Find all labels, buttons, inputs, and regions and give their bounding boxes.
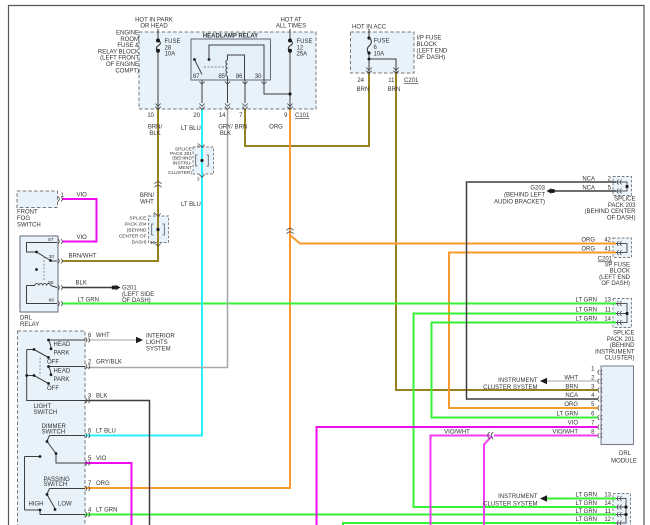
svg-text:14: 14 — [219, 113, 226, 119]
splice pack 204 internals — [156, 228, 159, 231]
svg-text:BLK: BLK — [96, 394, 107, 400]
svg-text:CLUSTER): CLUSTER) — [604, 356, 634, 362]
svg-text:SPLICE: SPLICE — [614, 197, 635, 203]
ACC box bottom chevrons — [366, 68, 398, 74]
svg-text:LT BLU: LT BLU — [96, 429, 116, 435]
svg-text:WHT: WHT — [564, 375, 578, 381]
DRL relay box — [20, 236, 58, 312]
svg-text:HEAD: HEAD — [54, 368, 71, 374]
svg-text:VIO: VIO — [77, 235, 88, 241]
svg-text:VIO/WHT: VIO/WHT — [444, 430, 470, 436]
svg-text:ORG: ORG — [581, 238, 595, 244]
svg-text:RELAY: RELAY — [20, 322, 39, 328]
splice pack 203 bracket — [616, 182, 627, 191]
svg-text:I/P FUSE: I/P FUSE — [417, 36, 442, 42]
svg-text:I/P FUSE: I/P FUSE — [605, 262, 630, 268]
svg-text:PACK 201: PACK 201 — [607, 337, 635, 343]
svg-text:BRN: BRN — [357, 87, 370, 93]
svg-text:VIO: VIO — [96, 456, 107, 462]
dimmer switch internals — [25, 436, 86, 511]
svg-text:GRY/: GRY/ — [218, 125, 233, 131]
I/P ACC fuse 6 symbol — [367, 29, 396, 73]
svg-text:HOT IN ACC: HOT IN ACC — [352, 25, 387, 31]
svg-text:CLUSTER SYSTEM: CLUSTER SYSTEM — [483, 501, 537, 507]
svg-text:41: 41 — [604, 247, 611, 253]
wire VIO/WHT riser and run to interrupt — [431, 436, 491, 525]
light/dimmer/passing switch assembly (dashed box) — [18, 331, 86, 525]
svg-text:ORG: ORG — [96, 481, 110, 487]
svg-text:LT BLU: LT BLU — [181, 126, 201, 132]
svg-text:SWITCH: SWITCH — [42, 429, 66, 435]
svg-text:12: 12 — [604, 517, 611, 523]
svg-text:CENTER OF: CENTER OF — [119, 234, 147, 240]
svg-text:SPLICE: SPLICE — [613, 331, 634, 337]
svg-text:ENGINE: ENGINE — [116, 31, 139, 37]
wire LT BLU relay pin20 via splice201 to dimmer pin6 — [85, 109, 202, 436]
svg-text:G203: G203 — [530, 186, 545, 192]
C201 connector bracket — [616, 244, 627, 253]
svg-text:FOG: FOG — [17, 216, 30, 222]
wire VIO front fog switch pin1 to DRL relay pin87 — [62, 199, 97, 242]
svg-text:10: 10 — [147, 113, 154, 119]
svg-text:LT BLU: LT BLU — [181, 202, 201, 208]
instrument cluster connector box (bottom) — [613, 494, 631, 525]
interior lights system arrow — [136, 337, 143, 343]
front fog switch (dashed box) — [17, 191, 58, 208]
svg-text:SPLICE: SPLICE — [129, 216, 146, 222]
svg-text:87: 87 — [193, 74, 200, 80]
svg-text:3: 3 — [197, 177, 200, 183]
svg-text:(BEHIND: (BEHIND — [610, 343, 635, 349]
wire BRN/BLK-BRN/WHT fuse28 to splice204 to DRL relay pin30 — [62, 109, 158, 261]
svg-text:BLK: BLK — [220, 131, 231, 137]
interrupt symbol on VIO/WHT wire — [488, 432, 494, 439]
wire LT GRN bottom to cluster pin12 — [343, 523, 616, 525]
wire NCA splice203 pin2 to DRL module pin4 — [467, 182, 617, 399]
wire VIO/WHT diagonal branch down — [484, 436, 492, 525]
instrument cluster arrow (top, WHT) — [540, 378, 547, 384]
svg-text:LT GRN: LT GRN — [576, 317, 597, 323]
wire BLK DRL relay pin85 to G201 — [62, 287, 112, 289]
svg-text:FUSE: FUSE — [374, 39, 390, 45]
wire LT GRN splice pin14 to DRL module pin6 — [432, 323, 617, 418]
svg-text:(BEHIND CENTER: (BEHIND CENTER — [584, 209, 636, 215]
wire ORG branch to I/P fuse pin42 — [290, 235, 616, 244]
svg-text:HEADLAMP RELAY: HEADLAMP RELAY — [203, 34, 258, 40]
svg-text:NCA: NCA — [582, 186, 595, 192]
pin chevrons DRL module — [598, 370, 602, 438]
svg-text:FUSE: FUSE — [297, 39, 313, 45]
svg-text:MODULE: MODULE — [611, 459, 637, 465]
svg-text:13: 13 — [604, 493, 611, 499]
svg-text:WHT: WHT — [96, 333, 110, 339]
svg-text:OF ENGINE: OF ENGINE — [106, 62, 139, 68]
svg-text:OR HEAD: OR HEAD — [140, 24, 168, 30]
svg-text:(LEFT FRONT: (LEFT FRONT — [100, 56, 139, 62]
svg-text:25A: 25A — [297, 52, 308, 58]
svg-text:DRL: DRL — [619, 451, 632, 457]
wire BRN I/P fuse pin11 to DRL module pin3 — [396, 73, 598, 390]
svg-text:ORG: ORG — [269, 125, 283, 131]
svg-text:LIGHTS: LIGHTS — [146, 340, 168, 346]
svg-text:BLOCK: BLOCK — [610, 269, 630, 275]
svg-text:OF DASH): OF DASH) — [122, 298, 151, 304]
svg-text:LT GRN: LT GRN — [576, 493, 597, 499]
wire ORG passing switch pin7 to relay pin9 C101 — [85, 109, 290, 488]
svg-text:OF DASH): OF DASH) — [417, 55, 446, 61]
svg-text:PARK: PARK — [54, 351, 70, 357]
wire VIO bottom riser to DRL module pin7 — [317, 427, 598, 525]
svg-text:14: 14 — [604, 317, 611, 323]
wire VIO dimmer pin5 down — [85, 463, 132, 525]
svg-text:(LEFT END: (LEFT END — [599, 275, 631, 281]
svg-text:LT GRN: LT GRN — [576, 308, 597, 314]
svg-text:LT GRN: LT GRN — [576, 501, 597, 507]
passing switch internals — [25, 489, 86, 515]
fuse 28 symbol — [156, 29, 160, 109]
splice pack 201 bracket (green) — [616, 304, 627, 323]
interrupt symbol on BRN wire — [155, 182, 162, 188]
svg-text:4: 4 — [153, 211, 156, 217]
svg-text:BLOCK: BLOCK — [417, 42, 437, 48]
svg-text:85: 85 — [218, 74, 225, 80]
svg-text:RELAY BLOCK: RELAY BLOCK — [98, 49, 139, 55]
svg-text:DASH): DASH) — [132, 240, 147, 246]
wire GRY/BLK relay pin14 to light switch pin2 — [85, 109, 228, 368]
svg-text:FUSE: FUSE — [165, 39, 181, 45]
svg-text:30: 30 — [49, 254, 55, 260]
svg-text:BLK: BLK — [76, 281, 87, 287]
svg-text:12: 12 — [297, 45, 304, 51]
svg-text:PACK 204: PACK 204 — [124, 222, 146, 228]
wire VIO/WHT interrupt to DRL module pin8 — [494, 435, 598, 437]
G203 ground symbol — [547, 188, 552, 194]
headlamp relay internals — [195, 45, 291, 103]
svg-text:20: 20 — [193, 113, 200, 119]
DRL module box — [601, 366, 634, 445]
svg-text:NCA: NCA — [565, 393, 578, 399]
svg-text:HEAD: HEAD — [54, 342, 71, 348]
svg-text:BRN/: BRN/ — [148, 125, 163, 131]
wire WHT arrow to DRL module pin2 — [547, 380, 598, 382]
svg-text:NCA: NCA — [582, 177, 595, 183]
I/P fuse block C201 connector box — [613, 238, 632, 258]
svg-text:SYSTEM: SYSTEM — [146, 347, 171, 353]
wire LT GRN DRL relay pin86 to splice pin13 — [62, 303, 616, 305]
svg-text:CLUSTER SYSTEM: CLUSTER SYSTEM — [483, 385, 537, 391]
svg-text:(BEHIND: (BEHIND — [127, 228, 147, 234]
svg-text:BLK: BLK — [149, 131, 160, 137]
I/P fuse block HOT IN ACC (dashed box) — [351, 32, 415, 73]
wire LT GRN light switch pin4 to cluster pin11 — [85, 514, 616, 516]
splice pack 204 box — [149, 216, 169, 243]
wire BLK light switch pin3 down — [85, 401, 150, 525]
wire ORG I/P fuse pin41 to DRL module pin5 — [449, 253, 616, 409]
svg-text:10A: 10A — [374, 52, 385, 58]
svg-text:OFF: OFF — [47, 386, 59, 392]
svg-text:C101: C101 — [295, 113, 310, 119]
svg-text:86: 86 — [49, 298, 55, 304]
svg-text:OF DASH): OF DASH) — [607, 215, 636, 221]
headlamp relay box — [191, 39, 271, 80]
svg-text:GRY/BLK: GRY/BLK — [96, 360, 122, 366]
instrument cluster arrow (bottom, LT GRN) — [540, 495, 547, 501]
svg-text:BRN: BRN — [565, 384, 578, 390]
svg-text:15: 15 — [150, 240, 156, 246]
svg-text:HIGH: HIGH — [29, 502, 44, 508]
svg-text:LT GRN: LT GRN — [576, 517, 597, 523]
wire BRN headlamp relay pin7 to I/P fuse pin24 — [245, 73, 369, 146]
svg-text:10A: 10A — [165, 52, 176, 58]
svg-text:COMPT): COMPT) — [115, 68, 139, 74]
svg-text:BRN: BRN — [235, 125, 248, 131]
svg-text:G201: G201 — [122, 286, 137, 292]
svg-text:11: 11 — [605, 509, 612, 515]
svg-text:VIO: VIO — [77, 193, 88, 199]
svg-text:11: 11 — [605, 308, 612, 314]
interrupt symbol on ORG wire — [287, 228, 294, 234]
svg-text:2: 2 — [197, 143, 200, 149]
svg-text:C201: C201 — [404, 78, 419, 84]
svg-text:BRN/: BRN/ — [140, 193, 155, 199]
svg-text:85: 85 — [48, 280, 54, 286]
svg-text:ALL TIMES: ALL TIMES — [276, 24, 306, 30]
splice pack 201 internals (cyan) — [200, 159, 203, 162]
svg-text:WHT: WHT — [140, 200, 154, 206]
G201 ground symbol — [112, 286, 116, 290]
svg-text:INSTRUMENT: INSTRUMENT — [595, 349, 635, 355]
svg-text:LT GRN: LT GRN — [78, 298, 99, 304]
svg-text:28: 28 — [165, 45, 172, 51]
pin chevrons left blocks (wires exiting right) — [58, 197, 90, 518]
fuse 12 symbol — [288, 29, 292, 109]
svg-text:LT GRN: LT GRN — [576, 509, 597, 515]
DRL relay internals — [27, 243, 58, 304]
splice pack 201 box (behind instrument cluster) — [193, 147, 214, 174]
svg-text:OF DASH): OF DASH) — [601, 281, 630, 287]
svg-text:LOW: LOW — [58, 502, 72, 508]
svg-text:SWITCH: SWITCH — [44, 482, 68, 488]
splice pack 203 box — [613, 177, 632, 196]
svg-text:86: 86 — [236, 74, 243, 80]
pin chevrons right connectors (wires entering from left) — [617, 180, 621, 525]
svg-text:ORG: ORG — [564, 402, 578, 408]
svg-text:SWITCH: SWITCH — [17, 223, 41, 229]
svg-text:ORG: ORG — [581, 247, 595, 253]
wire G203 to splice203 pin5 — [554, 190, 617, 192]
svg-text:(LEFT SIDE: (LEFT SIDE — [122, 292, 154, 298]
svg-text:42: 42 — [604, 238, 611, 244]
svg-text:SWITCH: SWITCH — [34, 410, 58, 416]
light switch internals — [27, 340, 85, 401]
splice pack 201 connector box (green) — [613, 299, 632, 328]
svg-text:PARK: PARK — [54, 377, 70, 383]
svg-text:13: 13 — [604, 298, 611, 304]
wire LT GRN arrow to cluster pin13 — [547, 498, 616, 500]
svg-text:(BEHIND LEFT: (BEHIND LEFT — [504, 193, 545, 199]
svg-text:(LEFT END: (LEFT END — [417, 49, 449, 55]
svg-text:OFF: OFF — [47, 360, 59, 366]
engine room fuse & relay block (dashed box) — [139, 32, 316, 109]
svg-text:BRN/WHT: BRN/WHT — [69, 254, 97, 260]
svg-text:VIO/WHT: VIO/WHT — [552, 430, 578, 436]
relay post chevrons — [155, 82, 292, 110]
svg-text:CLUSTER): CLUSTER) — [168, 170, 192, 176]
svg-text:LT GRN: LT GRN — [576, 298, 597, 304]
svg-text:VIO: VIO — [568, 421, 579, 427]
svg-text:INTERIOR: INTERIOR — [146, 334, 175, 340]
svg-text:DRL: DRL — [20, 316, 33, 322]
svg-text:LT GRN: LT GRN — [96, 508, 117, 514]
svg-text:AUDIO BRACKET): AUDIO BRACKET) — [494, 200, 545, 206]
cluster connector bracket (bottom) — [616, 499, 626, 524]
svg-text:14: 14 — [604, 501, 611, 507]
svg-text:ROOM: ROOM — [120, 37, 139, 43]
svg-text:BRN: BRN — [388, 87, 401, 93]
svg-text:LT GRN: LT GRN — [557, 411, 578, 417]
svg-text:PACK 203: PACK 203 — [608, 203, 636, 209]
svg-text:LIGHT: LIGHT — [34, 404, 52, 410]
svg-text:11: 11 — [388, 78, 395, 84]
svg-text:FUSE &: FUSE & — [117, 43, 139, 49]
svg-text:INSTRUMENT: INSTRUMENT — [498, 494, 538, 500]
wire WHT light switch pin6 to interior lights arrow — [85, 339, 136, 341]
svg-text:87: 87 — [48, 237, 54, 243]
svg-text:24: 24 — [357, 78, 364, 84]
svg-text:INSTRUMENT: INSTRUMENT — [498, 378, 538, 384]
svg-text:30: 30 — [255, 74, 262, 80]
svg-text:FRONT: FRONT — [17, 210, 38, 216]
wire LT GRN splice pin11 to cluster pin14 — [414, 314, 617, 508]
